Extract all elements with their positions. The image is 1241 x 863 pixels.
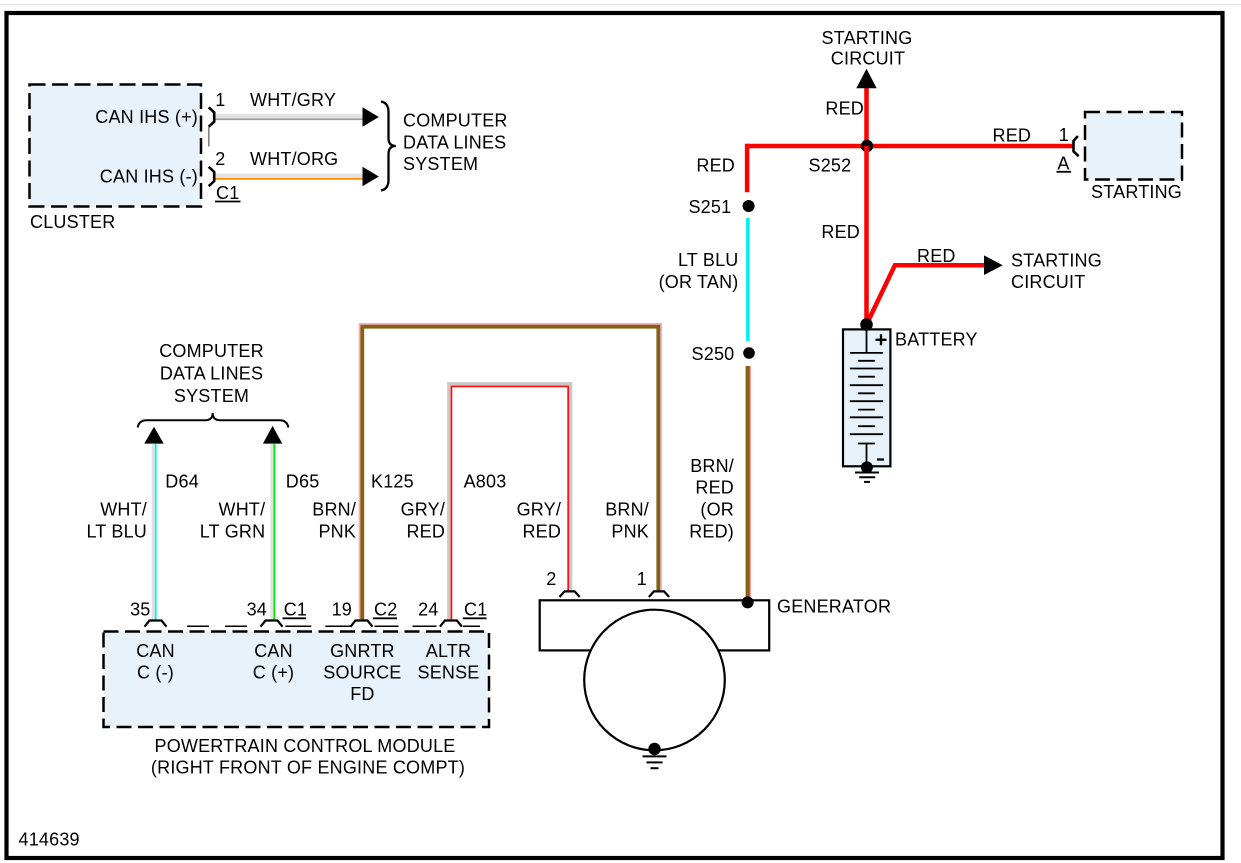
wire BRN/RED (OR RED) — [747, 366, 749, 599]
svg-text:RED: RED — [821, 222, 860, 242]
svg-text:GRY/: GRY/ — [517, 500, 561, 520]
arrow to computer data lines system bottom — [363, 167, 379, 186]
brace computer data lines system — [381, 102, 396, 191]
svg-text:(RIGHT FRONT OF ENGINE COMPT): (RIGHT FRONT OF ENGINE COMPT) — [151, 758, 465, 778]
svg-text:A803: A803 — [464, 472, 507, 492]
battery B1 — [843, 329, 890, 466]
svg-text:BRN/: BRN/ — [690, 456, 734, 476]
wire LT BLU (OR TAN) — [746, 218, 750, 341]
svg-text:WHT/: WHT/ — [100, 500, 147, 520]
svg-text:WHT/ORG: WHT/ORG — [250, 149, 338, 169]
svg-text:STARTING: STARTING — [822, 28, 913, 48]
wire K125 BRN/PNK — [360, 324, 661, 620]
svg-text:SYSTEM: SYSTEM — [174, 386, 249, 406]
splice S250 — [743, 347, 755, 359]
ground generator — [643, 756, 667, 768]
svg-text:CIRCUIT: CIRCUIT — [831, 49, 905, 69]
label BRN/RED (OR RED) — [689, 456, 734, 542]
svg-text:A: A — [1057, 154, 1069, 174]
svg-text:WHT/GRY: WHT/GRY — [250, 90, 336, 110]
cluster pin 1 connector — [209, 107, 215, 146]
label BRN/PNK (pin 1) — [605, 500, 649, 542]
svg-text:1: 1 — [637, 569, 647, 589]
svg-text:414639: 414639 — [19, 830, 80, 850]
svg-text:C (-): C (-) — [137, 663, 174, 683]
label STARTING CIRCUIT (right) — [1011, 251, 1102, 293]
svg-text:SENSE: SENSE — [417, 663, 479, 683]
svg-text:CAN IHS (-): CAN IHS (-) — [100, 167, 198, 187]
label ALTR SENSE — [417, 641, 479, 683]
label LT BLU (OR TAN) — [659, 250, 739, 292]
starting pin connector — [1074, 136, 1079, 156]
wire RED battery branch to starting circuit — [867, 265, 985, 324]
svg-text:DATA LINES: DATA LINES — [403, 133, 506, 153]
label CAN C (+) — [253, 641, 295, 683]
junction generator B+ — [742, 596, 754, 608]
svg-text:C1: C1 — [464, 600, 487, 620]
svg-text:C2: C2 — [374, 600, 397, 620]
svg-text:FD: FD — [350, 684, 374, 704]
svg-text:RED: RED — [993, 126, 1032, 146]
svg-text:19: 19 — [332, 600, 352, 620]
ground battery — [855, 473, 879, 482]
arrow up to starting circuit — [856, 69, 876, 89]
splice S252 — [861, 140, 873, 152]
svg-text:ALTR: ALTR — [426, 641, 471, 661]
generator pin 1 bump — [649, 591, 669, 597]
brace over D64 D65 arrows — [138, 413, 289, 428]
svg-text:K125: K125 — [371, 472, 414, 492]
svg-text:RED: RED — [917, 246, 956, 266]
svg-text:24: 24 — [418, 600, 438, 620]
svg-text:POWERTRAIN CONTROL MODULE: POWERTRAIN CONTROL MODULE — [154, 736, 455, 756]
svg-text:CLUSTER: CLUSTER — [30, 212, 115, 232]
pcm connector dashed line — [187, 625, 480, 627]
splice S251 — [743, 200, 755, 212]
svg-text:LT BLU: LT BLU — [86, 522, 147, 542]
label GRY/RED (pin 24) — [401, 500, 445, 542]
svg-text:PNK: PNK — [611, 522, 649, 542]
arrow right to starting circuit — [984, 255, 1003, 275]
wire D65 WHT/LT GRN — [272, 444, 275, 621]
junction generator ground — [648, 743, 660, 755]
pcm pin 24 bump — [440, 621, 462, 627]
connector label C1 (pin 34) — [283, 600, 308, 620]
svg-text:BATTERY: BATTERY — [895, 330, 978, 350]
arrow up D65 — [263, 426, 282, 444]
svg-text:RED): RED) — [689, 522, 734, 542]
svg-text:BRN/: BRN/ — [605, 500, 649, 520]
pcm pin 35 bump — [145, 621, 167, 627]
svg-text:RED: RED — [522, 522, 561, 542]
pin letter A (starting) — [1057, 154, 1072, 174]
wire WHT/GRY — [216, 116, 363, 119]
svg-text:35: 35 — [130, 600, 150, 620]
svg-text:LT GRN: LT GRN — [200, 522, 266, 542]
pcm pin 19 bump — [351, 621, 373, 627]
generator — [540, 600, 770, 750]
label BRN/PNK (pin 19) — [312, 500, 356, 542]
svg-text:CAN: CAN — [136, 641, 175, 661]
connector label C1 (cluster) — [215, 183, 241, 203]
wire RED S252 down to battery — [864, 146, 869, 325]
svg-text:CIRCUIT: CIRCUIT — [1011, 272, 1085, 292]
label COMPUTER DATA LINES SYSTEM (top right) — [403, 111, 508, 175]
svg-text:2: 2 — [546, 569, 556, 589]
label WHT/LT BLU — [86, 500, 147, 542]
connector label C1 (pin 24) — [463, 600, 488, 620]
svg-text:RED: RED — [825, 99, 864, 119]
wire RED left leg down to S251 — [745, 144, 750, 193]
svg-text:SYSTEM: SYSTEM — [403, 154, 478, 174]
wire A803 GRY/RED — [449, 384, 571, 621]
svg-text:S252: S252 — [809, 155, 852, 175]
svg-text:D65: D65 — [286, 472, 320, 492]
arrow to computer data lines system top — [363, 107, 379, 126]
junction battery positive — [860, 318, 873, 331]
svg-text:C (+): C (+) — [253, 663, 295, 683]
svg-text:CAN: CAN — [254, 641, 293, 661]
svg-text:34: 34 — [247, 600, 267, 620]
svg-text:GNRTR: GNRTR — [330, 641, 395, 661]
svg-text:CAN IHS (+): CAN IHS (+) — [95, 107, 198, 127]
label GRY/RED (pin 2) — [517, 500, 561, 542]
svg-text:COMPUTER: COMPUTER — [403, 111, 508, 131]
svg-text:WHT/: WHT/ — [219, 500, 266, 520]
wire RED S252 horizontal — [747, 144, 1073, 149]
svg-text:GRY/: GRY/ — [401, 500, 445, 520]
svg-text:D64: D64 — [165, 472, 199, 492]
svg-text:GENERATOR: GENERATOR — [777, 597, 891, 617]
svg-text:C1: C1 — [216, 183, 239, 203]
svg-text:COMPUTER: COMPUTER — [159, 341, 264, 361]
label COMPUTER DATA LINES SYSTEM (middle left) — [159, 341, 264, 406]
svg-text:STARTING: STARTING — [1011, 251, 1102, 271]
junction battery negative — [861, 461, 873, 473]
wire RED S252 up — [864, 88, 869, 146]
label POWERTRAIN CONTROL MODULE — [151, 736, 465, 778]
svg-text:PNK: PNK — [318, 522, 356, 542]
wire D64 WHT/LT BLU — [153, 444, 156, 621]
svg-text:BRN/: BRN/ — [312, 500, 356, 520]
svg-text:RED: RED — [695, 478, 734, 498]
svg-text:1: 1 — [1059, 125, 1069, 145]
svg-text:(OR: (OR — [700, 500, 734, 520]
generator pin 2 bump — [560, 591, 580, 597]
svg-text:RED: RED — [406, 522, 445, 542]
pcm pin 34 bump — [261, 621, 283, 627]
label STARTING CIRCUIT (top) — [822, 28, 913, 69]
cluster pin 2 connector — [209, 167, 215, 186]
wire WHT/ORG — [216, 176, 363, 179]
svg-text:(OR TAN): (OR TAN) — [659, 272, 739, 292]
svg-text:SOURCE: SOURCE — [323, 663, 401, 683]
cluster module box — [30, 85, 202, 207]
svg-text:RED: RED — [696, 155, 735, 175]
svg-text:C1: C1 — [284, 600, 307, 620]
svg-text:LT BLU: LT BLU — [678, 250, 739, 270]
svg-text:STARTING: STARTING — [1091, 182, 1182, 202]
svg-text:2: 2 — [215, 149, 225, 169]
arrow up D64 — [144, 427, 163, 444]
starting module box — [1085, 112, 1182, 180]
svg-text:S251: S251 — [688, 197, 731, 217]
label GNRTR SOURCE FD — [323, 641, 401, 704]
svg-text:1: 1 — [215, 90, 225, 110]
svg-text:DATA LINES: DATA LINES — [160, 364, 263, 384]
label WHT/LT GRN — [200, 500, 266, 542]
powertrain control module box — [104, 632, 490, 728]
svg-text:S250: S250 — [692, 344, 735, 364]
label CAN C (-) — [136, 641, 175, 683]
connector label C2 — [373, 600, 398, 620]
